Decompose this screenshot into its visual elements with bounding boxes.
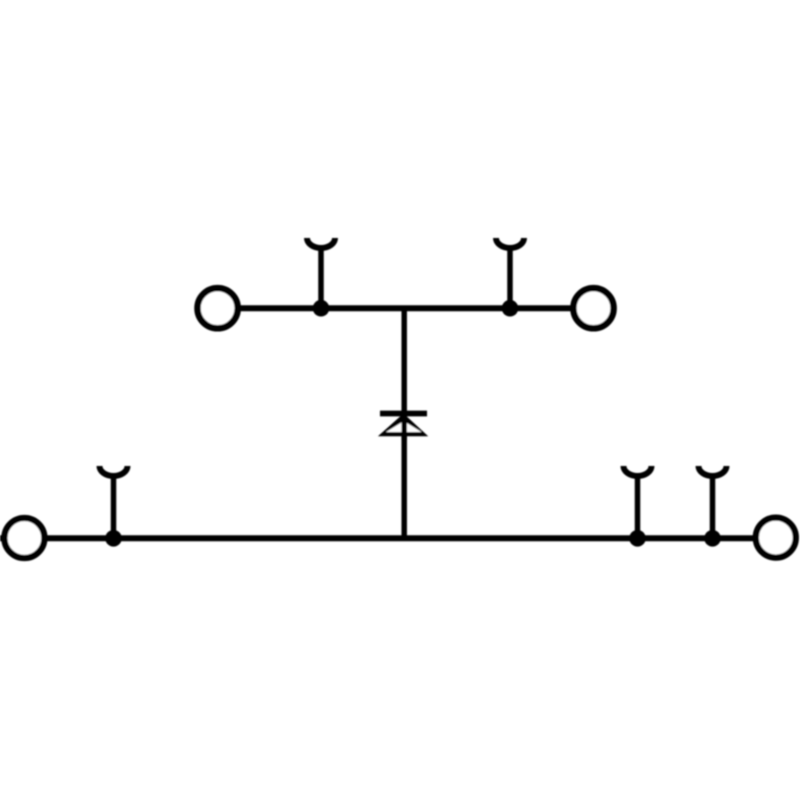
cross-connection tap 1 (upper rail) stem (318, 246, 324, 308)
wire: lower level rail (0, 535, 756, 541)
cross-connection tap 1 fork cup (307, 238, 335, 248)
cross-connection tap 3 (lower rail) stem (111, 474, 117, 538)
cross-connection tap 5 fork cup (699, 466, 727, 476)
terminal circle lower-left (4, 518, 44, 558)
cross-connection tap 2 (upper rail) stem (507, 246, 513, 308)
cross-connection tap 4 fork cup (624, 466, 652, 476)
cross-connection tap 4 (lower rail) stem (635, 474, 641, 538)
cross-connection tap 5 (lower rail) stem (710, 474, 716, 538)
junction dot tap 2 (502, 300, 519, 317)
junction dot tap 1 (313, 300, 330, 317)
junction dot tap 3 (105, 530, 122, 547)
diode D1 anode triangle (outlined) (378, 414, 428, 437)
cross-connection tap 3 fork cup (100, 466, 128, 476)
wire: upper level rail (238, 305, 573, 311)
junction dot tap 4 (629, 530, 646, 547)
terminal circle upper-left (198, 288, 238, 328)
wire: vertical link over diode (401, 414, 407, 441)
wire: vertical link between levels (401, 308, 407, 538)
terminal circle lower-right (756, 518, 796, 558)
junction dot tap 5 (704, 530, 721, 547)
diode D1 cathode bar (380, 411, 427, 417)
terminal circle upper-right (573, 288, 613, 328)
cross-connection tap 2 fork cup (496, 238, 524, 248)
